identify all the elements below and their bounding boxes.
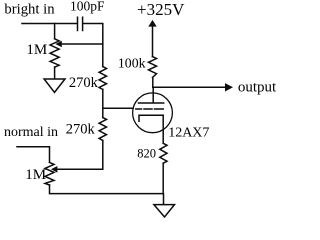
tube U1 12AX7 envelope circle bbox=[133, 93, 173, 133]
svg-text:1M: 1M bbox=[25, 167, 46, 183]
resistor R4 820 zigzag bbox=[160, 143, 167, 163]
capacitor C1 100pF right plate bbox=[82, 17, 84, 30]
power +325V arrow bbox=[148, 20, 156, 27]
svg-text:100pF: 100pF bbox=[70, 0, 105, 14]
wire bright pot top lead bbox=[54, 24, 56, 39]
svg-text:1M: 1M bbox=[26, 42, 47, 58]
potentiometer VR1 wiper arrow bbox=[55, 41, 61, 48]
wire pot bottom to ground bbox=[54, 67, 56, 79]
wire R3 to plate node bbox=[152, 78, 154, 88]
svg-text:270k: 270k bbox=[66, 121, 96, 137]
wire grid node to tube grid bbox=[103, 107, 133, 109]
wire supply to 100k bbox=[152, 26, 154, 56]
svg-text:12AX7: 12AX7 bbox=[168, 125, 209, 140]
tube plate lead bbox=[152, 87, 154, 103]
svg-text:270k: 270k bbox=[69, 75, 99, 91]
svg-text:bright in: bright in bbox=[4, 1, 55, 17]
ground (right) bbox=[154, 205, 175, 217]
svg-text:820: 820 bbox=[137, 146, 156, 160]
wire R2 bottom to wiper corner bbox=[58, 141, 103, 170]
svg-text:100k: 100k bbox=[118, 56, 146, 71]
tube cathode bbox=[139, 115, 163, 121]
ground (left) bbox=[44, 79, 65, 92]
resistor R2 270k (normal mixing) zigzag bbox=[99, 118, 106, 141]
potentiometer VR1 1M (bright) zigzag bbox=[50, 39, 59, 67]
wire output bbox=[153, 86, 226, 88]
wire R4 to ground bus bbox=[162, 163, 164, 193]
tube plate bar bbox=[139, 102, 164, 104]
wire cap to 270k column bbox=[83, 24, 103, 67]
wire cathode lead down bbox=[162, 115, 164, 143]
svg-text:normal in: normal in bbox=[4, 125, 58, 140]
wire R1 to grid node bbox=[102, 89, 104, 117]
potentiometer VR2 wiper arrow bbox=[51, 166, 57, 173]
wire VR2 bottom to ground bus bbox=[50, 185, 164, 204]
potentiometer VR2 1M (normal) zigzag bbox=[45, 162, 54, 185]
wire wiper to 270k column bbox=[62, 43, 103, 45]
node: normal input wire bbox=[17, 147, 50, 163]
capacitor C1 100pF left plate bbox=[77, 17, 79, 30]
tube grid dashes bbox=[136, 108, 163, 110]
svg-text:output: output bbox=[238, 80, 277, 96]
resistor R3 100k zigzag bbox=[149, 57, 157, 78]
output arrowhead bbox=[225, 83, 233, 91]
svg-text:+325V: +325V bbox=[137, 0, 185, 19]
resistor R1 270k (bright mixing) zigzag bbox=[99, 67, 106, 90]
node: bright input wire bbox=[22, 23, 77, 25]
